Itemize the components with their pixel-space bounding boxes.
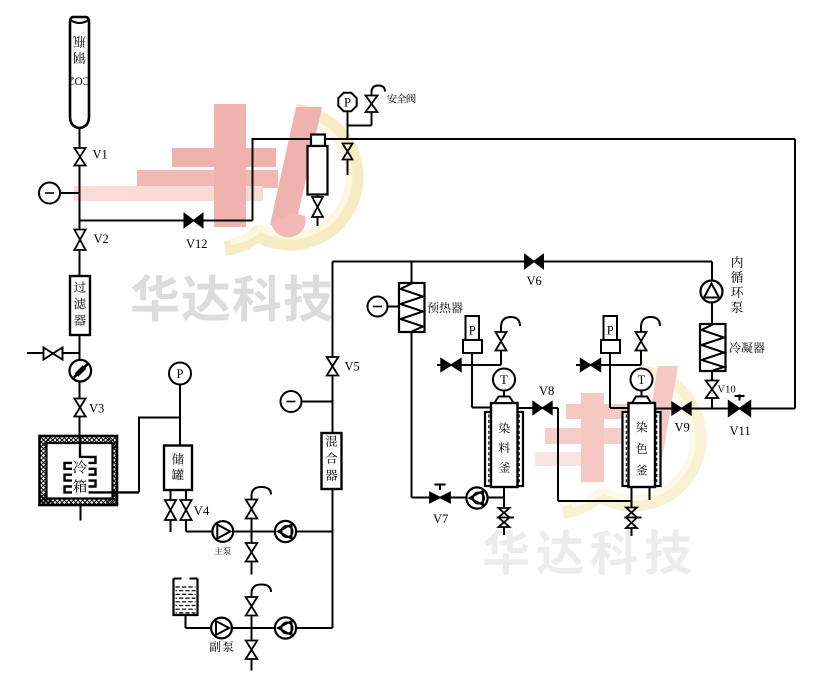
kettle1 vent valve — [496, 332, 507, 365]
cold box outlet to tank line — [138, 417, 180, 493]
kettle1 bottom drain + double valve — [499, 487, 515, 535]
label V1 — [93, 148, 108, 162]
filter vessel — [70, 276, 90, 335]
pipe filter to V3 — [79, 335, 81, 399]
kettle2 jacket — [623, 412, 661, 486]
label V9 — [675, 421, 690, 435]
kettle1 label 染料釜 — [499, 423, 510, 473]
label 冷凝器 — [730, 342, 765, 353]
tank outlet right + valve V4b — [180, 490, 191, 532]
temperature gauge at mixer line — [281, 391, 333, 412]
label V7 — [433, 512, 448, 526]
kettle1 lid — [495, 397, 514, 404]
label V12 — [186, 237, 208, 251]
pipe P gauge to tank — [179, 385, 181, 446]
svg-text:P: P — [344, 95, 351, 109]
pipe V10 to bottom line — [711, 398, 713, 409]
watermark text 华达科技 (center-left) — [131, 274, 332, 321]
valve V8 — [533, 402, 552, 415]
label V11 — [730, 424, 751, 438]
svg-text:V10: V10 — [718, 385, 736, 396]
kettle2 T gauge — [631, 369, 653, 397]
svg-text:V1: V1 — [93, 148, 108, 162]
kettle1 jacket dashed lines — [489, 415, 519, 485]
right header riser — [794, 139, 796, 409]
pipe V3 to cold box — [79, 417, 81, 453]
pipe V8 around to kettle2 bottom — [552, 408, 632, 501]
watermark logo top-center (red H + yellow swoosh) — [74, 104, 356, 249]
kettle1 manifold valve (left) — [441, 359, 461, 372]
P gauge above storage tank — [169, 363, 191, 385]
check pump aux row — [275, 617, 296, 638]
label 预热器 — [428, 302, 463, 313]
cylinder label 钢瓶CO2 (rotated 180) — [68, 36, 90, 86]
kettle2 outlet to V9 — [655, 408, 672, 410]
pipe V1 to V2 junction — [79, 166, 81, 230]
circulation pump 内循环泵 — [701, 281, 723, 303]
pipe V12 riser to top header — [252, 138, 254, 221]
vent branch above main line — [246, 499, 258, 532]
cold box (crosshatched jacket) — [31, 432, 134, 516]
vent hook aux row — [252, 585, 272, 598]
label V6 — [527, 274, 542, 288]
svg-text:P: P — [177, 367, 184, 381]
bleed line left — [27, 352, 80, 354]
kettle2 label 染色釜 — [636, 422, 647, 476]
flow indicator with needle — [70, 360, 92, 382]
kettle1 vent hook — [501, 317, 520, 332]
svg-text:T: T — [500, 373, 508, 387]
top header pipe — [253, 138, 796, 140]
check pump main row — [275, 521, 296, 542]
valve V1 — [74, 148, 85, 166]
watermark logo right (red H + yellow swoosh, faint) — [535, 366, 700, 513]
svg-text:V6: V6 — [527, 274, 542, 288]
cold box bottom drain stub — [80, 505, 82, 521]
valve V9 — [672, 402, 691, 415]
CO2 cylinder — [70, 17, 89, 128]
pipe cylinder to V1 — [79, 128, 81, 148]
pressure gauge P (octagon) — [338, 93, 356, 111]
kettle2 vessel — [629, 403, 656, 487]
kettle1 P transmitter — [463, 316, 482, 365]
preheater box — [399, 283, 425, 332]
svg-text:P: P — [607, 324, 614, 338]
pipe header2 to circulation pump — [711, 262, 713, 282]
safety valve branch — [348, 96, 378, 126]
svg-text:V2: V2 — [94, 232, 109, 246]
label V10 — [718, 385, 736, 396]
drain branch aux — [246, 628, 258, 671]
label V2 — [94, 232, 109, 246]
svg-text:V12: V12 — [186, 237, 208, 251]
preheater coil — [401, 284, 424, 332]
kettle2 jacket dashed lines — [626, 415, 656, 485]
pipe header2 to preheater — [411, 262, 413, 284]
temperature gauge at preheater — [368, 297, 400, 317]
pressure gauge at cylinder outlet — [39, 183, 60, 204]
condenser coil — [702, 325, 725, 371]
svg-text:V5: V5 — [345, 360, 360, 374]
pipe preheater down to V7 line — [412, 332, 505, 498]
valve V6 — [525, 255, 544, 269]
label 副泵 — [209, 641, 233, 652]
pipe junction to V12 line — [80, 220, 253, 222]
mixer label 混合器 — [326, 435, 338, 480]
vent below header — [343, 144, 353, 176]
svg-text:V3: V3 — [89, 402, 104, 416]
kettle2 P transmitter — [601, 316, 620, 365]
water tank — [174, 579, 198, 616]
label 主泵 — [215, 547, 231, 555]
svg-text:V8: V8 — [539, 384, 554, 398]
tank outlet left drain + valve V4a — [165, 490, 176, 532]
valve V12 — [184, 214, 203, 228]
svg-text:T: T — [638, 373, 646, 387]
mixer vessel 混合器 — [322, 433, 342, 489]
label V4 — [194, 503, 210, 518]
kettle1 jacket — [485, 412, 523, 486]
kettle2 manifold valve (left) — [581, 359, 601, 372]
drain branch below main line — [246, 532, 258, 575]
pipe gauge to main line — [60, 192, 80, 194]
main pump 主泵 — [212, 521, 233, 542]
svg-text:CO2: CO2 — [68, 75, 90, 87]
kettle1 outlet to V8 — [518, 407, 534, 409]
svg-text:V7: V7 — [433, 512, 448, 526]
pipe pump to condenser — [711, 303, 713, 325]
pipe condenser to V10 — [711, 371, 713, 381]
safety valve hook — [372, 86, 386, 96]
kettle1 feed drop — [472, 365, 491, 408]
valve V11 (globe with stem) — [729, 394, 751, 416]
separator drain valve — [312, 195, 323, 227]
circulator check pump at kettle1 bottom — [466, 487, 487, 508]
kettle1 vessel — [491, 403, 518, 487]
svg-text:V4: V4 — [194, 503, 210, 518]
pipe water tank to aux pump — [186, 615, 333, 628]
kettle2 jacket stub — [649, 487, 651, 500]
label V5 — [345, 360, 360, 374]
storage tank 储罐 — [164, 446, 192, 491]
pipe tank to mixer (main pump suction/discharge) — [186, 531, 333, 533]
pipe mixer to V5 to header2 — [332, 262, 334, 434]
kettle2 manifold line — [576, 364, 641, 366]
valve V5 — [327, 357, 339, 376]
kettle2 vent valve — [636, 332, 647, 365]
vent branch aux — [246, 597, 258, 628]
pipe V9 to V11 to right riser — [691, 408, 795, 410]
valve V3 — [74, 399, 85, 417]
kettle1 T gauge — [493, 369, 515, 397]
separator vessel — [308, 135, 328, 195]
kettle2 vent hook — [641, 317, 660, 332]
second header pipe — [333, 261, 713, 263]
valve V7 (globe with stem) — [430, 485, 450, 503]
svg-text:P: P — [469, 324, 476, 338]
kettle2 bottom drain + double valve — [626, 487, 642, 536]
riser pump rows to mixer — [332, 489, 334, 628]
valve V10 — [706, 381, 719, 399]
label 安全阀 — [387, 94, 415, 104]
label 内循环泵 — [731, 256, 743, 313]
kettle2 feed drop — [610, 365, 629, 408]
svg-text:V11: V11 — [730, 424, 751, 438]
tank label 储罐 — [172, 453, 184, 480]
label V3 — [89, 402, 104, 416]
filter label 过滤器 — [74, 281, 86, 325]
cold box label 冷箱 — [72, 458, 89, 495]
pipe V2 to filter — [79, 250, 81, 276]
kettle1 manifold line — [437, 364, 501, 366]
condenser box — [700, 324, 726, 371]
kettle2 lid — [632, 397, 651, 404]
valve V2 — [74, 230, 85, 251]
bleed valve — [44, 348, 63, 360]
watermark text 华达科技 (bottom-right) — [483, 529, 691, 574]
svg-text:V9: V9 — [675, 421, 690, 435]
aux pump 副泵 — [211, 618, 232, 639]
cold box coil — [65, 436, 140, 492]
pipe P gauge to header — [347, 112, 349, 139]
vent hook main row — [252, 487, 272, 500]
label V8 — [539, 384, 554, 398]
